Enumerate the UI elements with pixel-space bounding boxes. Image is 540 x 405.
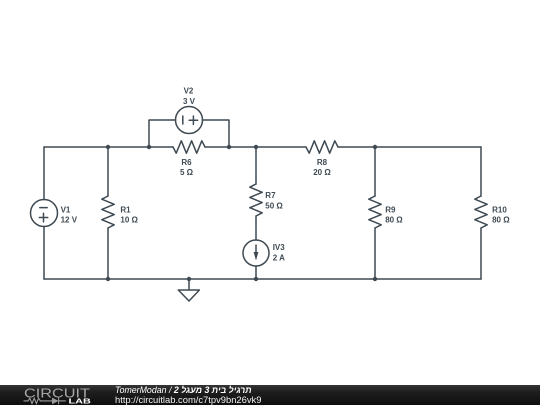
svg-text:R7: R7 — [265, 191, 276, 200]
svg-text:2 A: 2 A — [273, 254, 285, 263]
svg-text:V2: V2 — [184, 87, 194, 96]
svg-text:R1: R1 — [120, 205, 131, 214]
svg-text:20 Ω: 20 Ω — [313, 168, 331, 177]
svg-text:IV3: IV3 — [273, 243, 286, 252]
svg-text:R10: R10 — [492, 205, 507, 214]
svg-text:V1: V1 — [61, 205, 71, 214]
svg-text:R6: R6 — [181, 158, 192, 167]
svg-text:50 Ω: 50 Ω — [265, 201, 283, 210]
svg-text:10 Ω: 10 Ω — [120, 215, 138, 224]
svg-text:5 Ω: 5 Ω — [180, 168, 194, 177]
svg-text:3 V: 3 V — [183, 97, 196, 106]
svg-text:LAB: LAB — [69, 398, 91, 405]
svg-text:80 Ω: 80 Ω — [492, 215, 510, 224]
svg-text:12 V: 12 V — [61, 215, 78, 224]
svg-text:R9: R9 — [385, 205, 396, 214]
svg-text:80 Ω: 80 Ω — [385, 215, 403, 224]
svg-text:R8: R8 — [317, 158, 328, 167]
